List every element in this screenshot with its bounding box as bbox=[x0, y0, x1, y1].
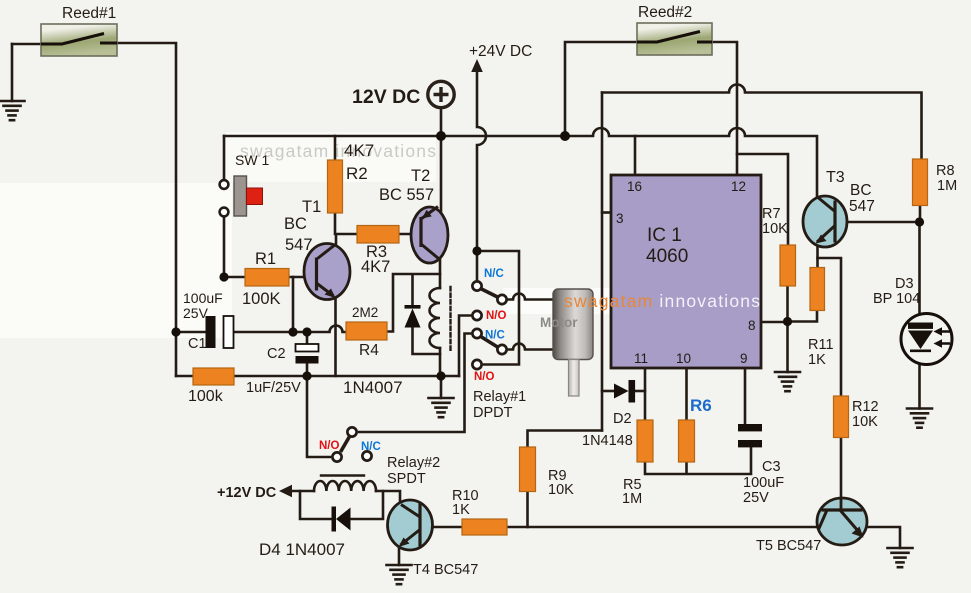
resistor R8 bbox=[913, 159, 928, 206]
+12V arrow head bbox=[279, 485, 292, 497]
svg-text:R8: R8 bbox=[936, 163, 955, 179]
wire SW1 lower to R1 bbox=[224, 216, 245, 277]
wire T1 emitter down to bus bbox=[334, 297, 337, 376]
svg-text:R11: R11 bbox=[808, 337, 834, 353]
resistor R11 bbox=[810, 268, 825, 311]
svg-text:10K: 10K bbox=[852, 414, 878, 430]
wire IC pin 10 to R6 bbox=[685, 368, 688, 420]
transistor T2 BC557 bbox=[411, 207, 448, 264]
wire +24V node to relay N/C1 bbox=[476, 251, 479, 279]
svg-text:R2: R2 bbox=[346, 164, 368, 183]
relay#1 coil (4 loops) bbox=[430, 288, 441, 348]
svg-text:R12: R12 bbox=[852, 399, 879, 415]
svg-text:BC: BC bbox=[284, 215, 307, 233]
wire D2 cathode to pin 11 line bbox=[636, 390, 645, 393]
relay#1 contact N/C1 bbox=[472, 281, 481, 290]
resistor R12 bbox=[834, 396, 849, 438]
wire reed#1 left lead bbox=[12, 43, 62, 46]
svg-text:C2: C2 bbox=[267, 346, 286, 362]
relay#1 contact N/C2 bbox=[472, 329, 481, 338]
svg-text:16: 16 bbox=[627, 179, 642, 194]
wire C1 node riser bbox=[292, 277, 295, 332]
svg-text:R1: R1 bbox=[255, 250, 276, 268]
wire pin3 line to R8 with hop over reed#2 wire bbox=[602, 85, 922, 160]
resistor R1 bbox=[245, 269, 289, 287]
capacitor C3 bbox=[738, 424, 762, 447]
pushbutton SW1 bbox=[220, 176, 263, 216]
wire reed#2 left lead bbox=[565, 42, 637, 136]
power symbol 12V DC bbox=[428, 81, 454, 107]
svg-text:R7: R7 bbox=[762, 206, 781, 222]
svg-text:C3: C3 bbox=[762, 459, 781, 475]
svg-text:Relay#2: Relay#2 bbox=[387, 455, 440, 471]
resistor R3 bbox=[357, 226, 399, 244]
svg-text:10K: 10K bbox=[548, 482, 574, 498]
svg-text:R4: R4 bbox=[359, 342, 379, 359]
wire R8 node down to D3 bbox=[918, 222, 921, 314]
svg-text:10: 10 bbox=[676, 351, 691, 366]
wire reed#2 right lead down to IC pin 12 bbox=[700, 42, 737, 175]
wire R5/R6/C3 bottom rail bbox=[645, 448, 751, 475]
wire T4 base to R10 bbox=[432, 526, 462, 529]
wire R2 top lead bbox=[334, 136, 337, 160]
wire R1 to T1 base bbox=[289, 276, 317, 279]
resistor R2 bbox=[328, 160, 343, 213]
+24V arrow head bbox=[471, 59, 483, 72]
wire N/C2 down to relay#2 pole bbox=[359, 334, 470, 433]
svg-text:Motor: Motor bbox=[540, 315, 578, 330]
svg-text:T2: T2 bbox=[411, 167, 430, 185]
svg-text:BC: BC bbox=[850, 182, 872, 199]
wire coil/diode top node bbox=[387, 274, 440, 332]
resistor R6 bbox=[679, 420, 695, 462]
svg-text:C1: C1 bbox=[188, 336, 207, 352]
ground (T4 emitter) bbox=[387, 545, 412, 584]
wire bottom bus left segment bbox=[176, 375, 193, 378]
wire R12 bottom to T5 collector bbox=[840, 438, 843, 500]
IC U1 4060 bbox=[611, 175, 761, 368]
wire T2 emitter to rail bbox=[440, 136, 443, 213]
svg-text:12V DC: 12V DC bbox=[352, 86, 420, 108]
wire coil right to T4 collector bbox=[376, 491, 400, 505]
svg-text:1K: 1K bbox=[808, 352, 826, 368]
svg-text:N/O: N/O bbox=[319, 440, 340, 452]
wire R8 bottom lead bbox=[919, 206, 922, 223]
resistor R5 bbox=[637, 420, 653, 462]
wire D4 freewheel loop bbox=[300, 491, 383, 519]
wire SW1 upper branch bbox=[223, 136, 226, 178]
capacitor C1 bbox=[206, 316, 234, 348]
svg-text:BC 557: BC 557 bbox=[379, 186, 434, 204]
svg-text:100K: 100K bbox=[242, 290, 281, 308]
svg-text:100uF: 100uF bbox=[743, 475, 784, 491]
svg-text:9: 9 bbox=[740, 351, 748, 366]
wire R10 to R9 to T5 base bbox=[507, 526, 818, 529]
svg-text:T4 BC547: T4 BC547 bbox=[413, 562, 478, 578]
relay#1 pole2 bbox=[497, 345, 506, 354]
diode D2 1N4148 bbox=[614, 380, 635, 403]
wire branch to R7 bbox=[737, 154, 788, 245]
watermark background bands bbox=[0, 183, 232, 338]
svg-text:N/C: N/C bbox=[361, 441, 381, 453]
svg-text:3: 3 bbox=[616, 211, 624, 226]
wire C1 node to R4 with hop over T1 emitter bbox=[234, 326, 346, 333]
relay#2 core line bbox=[321, 474, 364, 476]
relay#2 pole bbox=[347, 427, 356, 436]
wire pin 3 stub bbox=[602, 211, 611, 214]
relay#2 arm bbox=[341, 437, 350, 453]
svg-text:1uF/25V: 1uF/25V bbox=[246, 380, 301, 396]
ground (reed#1) bbox=[0, 44, 25, 120]
wire C2 node down to relay#2 N/O bbox=[307, 376, 330, 457]
svg-text:8: 8 bbox=[748, 318, 756, 333]
svg-text:D4 1N4007: D4 1N4007 bbox=[259, 540, 345, 559]
svg-text:T3: T3 bbox=[826, 169, 845, 186]
wire bottom bus bbox=[234, 375, 459, 378]
wire 1N4007 anode to coil bottom bbox=[413, 327, 441, 354]
wire R2 bottom / T1 collector / R3 node bbox=[318, 213, 358, 259]
svg-text:SW 1: SW 1 bbox=[235, 152, 269, 168]
svg-text:4060: 4060 bbox=[646, 246, 688, 267]
relay#1 contact N/O2 bbox=[472, 360, 481, 369]
svg-text:1M: 1M bbox=[937, 178, 957, 194]
ground (oscillator) bbox=[429, 376, 454, 417]
relay#1 contact N/O1 bbox=[472, 311, 481, 320]
wire N/O1 to bottom bus bbox=[459, 316, 470, 377]
svg-text:25V: 25V bbox=[183, 305, 209, 321]
relay#1 arm2 bbox=[482, 337, 498, 347]
relay#1 actuator dashed line bbox=[449, 287, 451, 352]
relay#1 pole1 bbox=[497, 295, 506, 304]
wire relay pole2 to motor (hop) bbox=[508, 344, 554, 350]
ground (pin8 node) bbox=[775, 322, 800, 392]
wire +12V arrow shaft bbox=[290, 490, 314, 493]
wire 12V supply rail with hops at x=601,737 bbox=[224, 128, 817, 197]
wire T5 emitter to ground bbox=[866, 527, 913, 567]
svg-text:547: 547 bbox=[849, 198, 875, 215]
resistor R7 bbox=[780, 245, 796, 286]
svg-text:12: 12 bbox=[731, 179, 746, 194]
transistor T1 BC547 bbox=[304, 244, 350, 300]
wire IC pin 16 stub bbox=[634, 136, 637, 175]
wire T3 emitter to R11 bbox=[816, 245, 819, 268]
wire IC pin 11 to R5 top bbox=[644, 368, 647, 420]
svg-text:N/C: N/C bbox=[484, 268, 504, 280]
svg-text:100uF: 100uF bbox=[183, 290, 223, 306]
svg-text:T1: T1 bbox=[302, 198, 321, 216]
svg-text:D2: D2 bbox=[613, 411, 632, 427]
svg-text:1N4007: 1N4007 bbox=[343, 378, 403, 397]
svg-text:+12V DC: +12V DC bbox=[217, 485, 277, 501]
svg-text:100k: 100k bbox=[188, 388, 224, 405]
resistor R10 bbox=[462, 519, 507, 535]
motor body bbox=[553, 289, 593, 396]
wire T2 collector down to coil node bbox=[439, 259, 442, 288]
svg-text:+24V DC: +24V DC bbox=[469, 43, 532, 60]
wire coil bottom to bus junction bbox=[439, 348, 442, 376]
svg-text:Reed#1: Reed#1 bbox=[62, 5, 116, 22]
svg-text:25V: 25V bbox=[743, 490, 769, 506]
svg-text:4K7: 4K7 bbox=[344, 141, 374, 160]
svg-text:DPDT: DPDT bbox=[473, 405, 513, 421]
resistor 100k bbox=[193, 368, 234, 385]
svg-text:547: 547 bbox=[285, 236, 313, 254]
transistor T4 BC547 bbox=[388, 500, 433, 550]
wire T3 base to R8 node bbox=[835, 221, 920, 224]
svg-text:Relay#1: Relay#1 bbox=[473, 389, 526, 405]
wire 12V symbol to rail junction bbox=[440, 109, 443, 136]
wire IC pin 9 to C3 bbox=[744, 368, 747, 424]
svg-text:11: 11 bbox=[634, 351, 648, 366]
reed switch Reed#2 bbox=[637, 23, 712, 55]
wire pin3 spine x=602 bbox=[601, 93, 604, 431]
relay#2 contact N/O bbox=[332, 452, 341, 461]
wire C2 leads bbox=[306, 332, 309, 376]
wire R11 bottom lead bbox=[788, 311, 818, 322]
svg-text:1M: 1M bbox=[622, 491, 642, 507]
svg-text:N/O: N/O bbox=[474, 371, 495, 383]
svg-text:swagatam innovations: swagatam innovations bbox=[564, 291, 761, 311]
svg-text:T5 BC547: T5 BC547 bbox=[756, 538, 821, 554]
svg-text:swagatam innovations: swagatam innovations bbox=[240, 141, 437, 161]
svg-text:D3: D3 bbox=[895, 276, 914, 292]
wire IC pin 8 stub bbox=[761, 321, 787, 324]
svg-text:R6: R6 bbox=[690, 396, 712, 415]
diode D4 1N4007 bbox=[332, 507, 351, 532]
svg-text:1N4148: 1N4148 bbox=[582, 433, 633, 449]
wire relay pole1 to motor (hop) bbox=[508, 294, 554, 300]
wire +24V line with hop over rail bbox=[477, 68, 486, 251]
svg-text:IC 1: IC 1 bbox=[647, 225, 682, 246]
wire +24V node to relay N/O2 bbox=[477, 251, 519, 365]
svg-text:Reed#2: Reed#2 bbox=[638, 4, 692, 21]
svg-text:SPDT: SPDT bbox=[387, 471, 426, 487]
resistor R4 2M2 bbox=[346, 322, 387, 340]
wire reed#1 right lead to C1 node bbox=[100, 43, 176, 376]
wire C1 left lead bbox=[176, 331, 206, 334]
relay#2 coil (5 loops) bbox=[314, 481, 376, 491]
diode 1N4007 (relay clamp) bbox=[405, 305, 421, 328]
wire R9 bottom lead bbox=[526, 492, 529, 528]
svg-text:10K: 10K bbox=[762, 221, 788, 237]
resistor R9 bbox=[520, 447, 536, 492]
svg-text:2M2: 2M2 bbox=[352, 305, 378, 320]
wire emitter branch to R12 bbox=[818, 258, 842, 396]
svg-text:BP 104: BP 104 bbox=[873, 291, 920, 307]
transistor T3 BC547 bbox=[803, 196, 847, 247]
svg-text:N/C: N/C bbox=[485, 330, 505, 342]
transistor T5 BC547 bbox=[817, 498, 867, 545]
ground (D3 cathode) bbox=[907, 364, 932, 428]
reed switch Reed#1 bbox=[41, 24, 117, 56]
wire D2 anode lead bbox=[602, 390, 614, 393]
wire R9 top to pin3 spine bbox=[528, 431, 603, 448]
svg-text:1K: 1K bbox=[452, 502, 470, 518]
capacitor C2 bbox=[296, 344, 319, 364]
relay#1 arm1 bbox=[482, 289, 498, 297]
svg-text:N/O: N/O bbox=[486, 310, 507, 322]
photodiode D3 BP104 bbox=[901, 314, 952, 365]
wire R7 bottom lead bbox=[786, 286, 789, 322]
relay#2 contact N/C bbox=[362, 451, 371, 460]
svg-text:4K7: 4K7 bbox=[361, 258, 390, 276]
wire R3 right to T2 base bbox=[399, 233, 421, 236]
